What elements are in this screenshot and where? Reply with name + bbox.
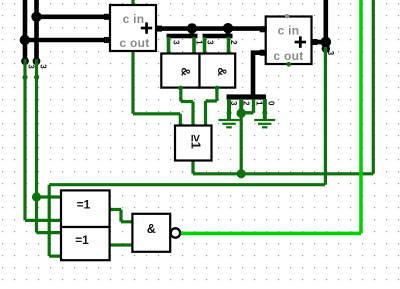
- svg-text:0: 0: [267, 101, 276, 106]
- svg-text:3: 3: [206, 40, 215, 45]
- wire B branch to XOR U5 input A: [37, 195, 64, 198]
- adder U2 pin stub left 1: [260, 26, 267, 32]
- XOR U6 output to NAND U8 input 2: [109, 243, 133, 246]
- adder U1 pin stub left 1: [104, 14, 111, 20]
- svg-text:c in: c in: [278, 24, 300, 38]
- tap bar for AND U4 inputs: [203, 34, 233, 39]
- OR U7 box: [175, 126, 212, 161]
- AND U4 output wire to OR U7 pin3: [206, 86, 217, 127]
- adder U2 pin stub left 2: [260, 50, 267, 56]
- wire bus B branch to adder U1 c-in row: [37, 14, 111, 19]
- AND U4 box: [200, 54, 236, 88]
- adder U2 pin stub right: [311, 39, 318, 45]
- breakout stub line 1: [241, 99, 253, 113]
- tick on wire B: [34, 75, 39, 80]
- AND U3 output pin dot: [178, 86, 183, 91]
- bright output wire from NAND U8 to top: [181, 0, 361, 233]
- tick on wire A: [22, 75, 27, 80]
- AND U4 output pin dot: [215, 86, 220, 91]
- wire from join down to node W1: [240, 113, 243, 174]
- XOR U5 box: [61, 190, 110, 227]
- NAND U8 box: [132, 214, 170, 252]
- adder U1 pin stub left 2: [104, 37, 111, 43]
- adder U2 c out wire to breakout: [253, 53, 266, 95]
- net W2: adder U2 sum wire across to XOR U6: [49, 47, 325, 256]
- svg-text:3: 3: [326, 51, 335, 56]
- junction on bus A: [20, 35, 30, 45]
- svg-text:=1: =1: [77, 198, 91, 212]
- adder U1 plus symbol: [141, 22, 152, 33]
- svg-text:1: 1: [255, 101, 264, 106]
- drop from junction to bar U4: [226, 28, 231, 35]
- junction on bus B: [31, 12, 41, 22]
- svg-text:3: 3: [172, 40, 181, 45]
- svg-text:3: 3: [27, 64, 36, 69]
- wire bus A vertical: [23, 0, 28, 60]
- XOR U5 output to NAND U8 input 1: [109, 210, 133, 222]
- svg-text:c out: c out: [119, 36, 149, 50]
- svg-text:≥1: ≥1: [189, 135, 204, 149]
- adder U2 box: [266, 17, 312, 65]
- wire green A to XOR U5 input B: [25, 219, 63, 222]
- wire B end to XOR U6 input A: [37, 231, 64, 234]
- breakout stub line 2: [239, 99, 243, 113]
- wire bus B vertical: [34, 0, 39, 60]
- svg-text:&: &: [179, 67, 193, 76]
- adder U1 top input wire: [131, 0, 134, 8]
- green stub AND U3 pin 2: [192, 37, 196, 56]
- bus end dot below junction: [322, 44, 330, 52]
- svg-text:3: 3: [39, 64, 48, 69]
- junction dot on net W1: [237, 169, 246, 178]
- bus B end dot: [33, 57, 41, 65]
- black bus vertical top right: [323, 0, 328, 42]
- bus A end dot: [21, 57, 29, 65]
- junction dot feeding AND U4: [223, 23, 233, 33]
- wire bus A branch to adder U1 lower input: [25, 38, 110, 43]
- AND U3 output wire to OR U7 pin2: [181, 86, 193, 127]
- svg-text:&: &: [147, 222, 156, 236]
- junction dot feeding AND U3: [187, 23, 197, 33]
- adder U1 pin stub right: [155, 26, 162, 32]
- drop from junction to bar U3: [190, 28, 195, 35]
- wire green B down: [35, 59, 38, 233]
- ground symbol 2: [254, 120, 275, 127]
- svg-text:c in: c in: [123, 12, 145, 26]
- svg-text:=1: =1: [75, 233, 89, 247]
- tick on breakout line 3: [227, 110, 232, 115]
- adder U1 c out wire to OR U7 pin1: [133, 50, 180, 127]
- breakout stub line 0: [263, 99, 267, 119]
- net W1: OR U7 output long wire to top right: [193, 0, 373, 174]
- main bus wire between adders: [156, 26, 266, 31]
- XOR U6 box: [61, 227, 110, 260]
- svg-text:&: &: [215, 67, 229, 76]
- svg-text:2: 2: [242, 101, 251, 106]
- ground symbol 1: [219, 120, 240, 127]
- svg-text:1: 1: [195, 40, 204, 45]
- AND U3 box: [161, 54, 199, 88]
- junction dot at adder U2 output: [321, 37, 332, 48]
- green stub AND U4 pin 1: [203, 37, 207, 56]
- junction node on wire B: [32, 192, 41, 201]
- tick on breakout line 0: [262, 110, 267, 115]
- NAND U8 bubble: [171, 228, 180, 237]
- svg-text:2: 2: [229, 40, 238, 45]
- adder U2 bottom pin dot: [286, 62, 291, 67]
- adder U2 plus symbol: [295, 36, 306, 47]
- green stub AND U3 pin 1: [167, 37, 171, 56]
- adder U2 unconnected top pin dot: [285, 14, 289, 18]
- svg-text:c out: c out: [273, 49, 303, 63]
- svg-text:3: 3: [229, 101, 238, 106]
- green stub AND U4 pin 2: [227, 37, 231, 56]
- breakout stub line 3: [227, 99, 231, 119]
- adder U2 right pin wire: [312, 40, 326, 45]
- wire green A down to XOR row: [23, 59, 26, 220]
- bus breakout bar: [227, 94, 267, 99]
- tap bar for AND U3 inputs: [167, 34, 198, 39]
- adder U1 box: [110, 5, 156, 51]
- junction dot joining lines 1 and 2: [237, 109, 246, 118]
